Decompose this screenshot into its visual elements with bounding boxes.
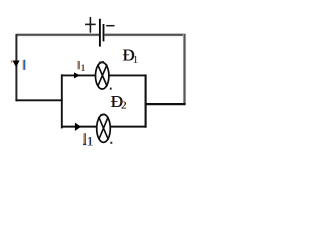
battery negative plate (short) <box>103 24 105 41</box>
wire bottom branch <box>61 126 146 128</box>
svg-text:1: 1 <box>87 134 94 149</box>
node A left junction bar <box>61 74 63 128</box>
battery minus sign <box>106 25 114 27</box>
svg-text:1: 1 <box>81 63 86 74</box>
wire right vertical (grey) <box>183 34 186 104</box>
node B right junction bar <box>145 74 147 127</box>
battery positive plate (long) <box>99 19 101 47</box>
label D1 <box>122 46 138 67</box>
arrow I1 (right, bottom branch) <box>75 123 81 132</box>
label I (left, clear-type coloured) <box>23 60 26 70</box>
label D2 <box>110 92 126 111</box>
svg-text:1: 1 <box>133 54 139 66</box>
wire top (battery loop, grey) <box>17 33 186 36</box>
wire right connector from node B <box>145 103 186 105</box>
label I1 (top branch) <box>77 61 85 74</box>
arrow I (down, on left wire) <box>11 61 20 68</box>
battery plus sign <box>85 17 96 33</box>
lamp D1 (circle with X) <box>96 62 112 90</box>
wire top branch <box>61 74 146 76</box>
svg-text:2: 2 <box>121 99 127 111</box>
label I1 (bottom branch) <box>83 133 94 149</box>
wire left connector to node A <box>16 99 63 101</box>
arrow I1 (right, top branch) <box>74 72 80 78</box>
wire left vertical <box>15 34 17 101</box>
lamp D2 (circle with X) <box>97 114 113 143</box>
